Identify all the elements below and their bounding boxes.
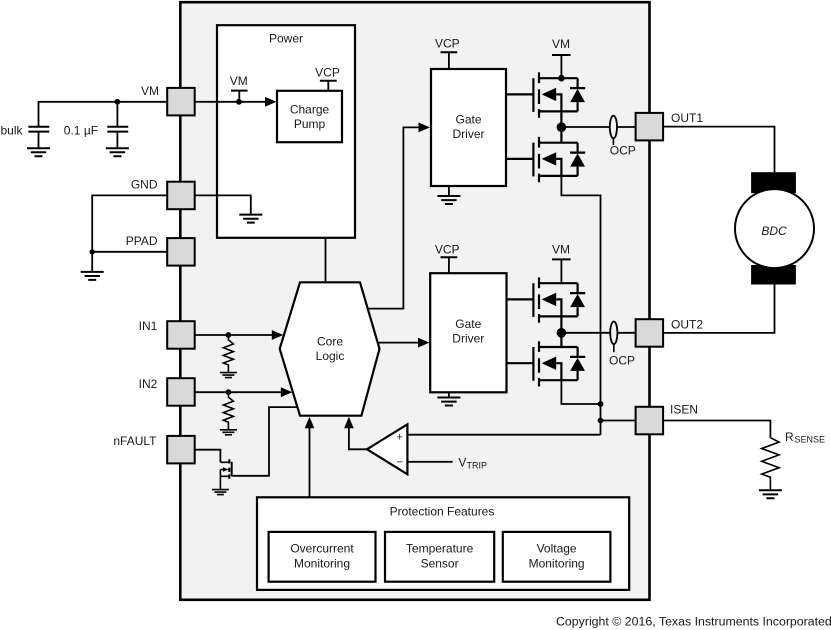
node phase OUT2 <box>557 328 567 338</box>
wire core logic to gate driver 1 <box>368 127 419 308</box>
net VCP (gate driver 1) <box>441 51 458 53</box>
motor BDC <box>735 189 814 268</box>
ground IN2 resistor <box>220 430 237 435</box>
ground power block <box>239 215 262 223</box>
pin VM <box>167 88 195 116</box>
wire VM pin to charge pump <box>195 101 266 103</box>
wire IN2 to core logic <box>195 391 281 393</box>
net VM (half-bridge 1) <box>552 54 571 56</box>
svg-text:PPAD: PPAD <box>126 234 158 248</box>
svg-text:R: R <box>785 430 794 444</box>
box Gate Driver 1 <box>431 69 506 186</box>
svg-text:Protection Features: Protection Features <box>390 504 495 518</box>
wire Q2 source to sense line <box>561 176 600 435</box>
net VCP (charge pump) <box>320 80 337 82</box>
wire comparator output to core logic <box>349 428 367 450</box>
svg-text:BDC: BDC <box>761 224 787 238</box>
node PPAD junction <box>90 249 95 254</box>
svg-text:GND: GND <box>131 177 158 191</box>
ground bulk cap <box>27 148 50 156</box>
pin OUT1 <box>636 113 664 140</box>
svg-text:TRIP: TRIP <box>467 461 488 471</box>
wire PPAD <box>92 251 167 253</box>
wire OUT1 to motor <box>663 127 774 173</box>
node Q4 source junction <box>598 401 604 407</box>
capacitor bulk <box>28 127 49 132</box>
svg-text:VM: VM <box>552 243 570 257</box>
node VM supply junction <box>115 99 121 105</box>
svg-text:Monitoring: Monitoring <box>529 557 585 571</box>
svg-text:ISEN: ISEN <box>670 403 698 417</box>
net VM tap (power) <box>231 90 248 92</box>
svg-text:Power: Power <box>269 32 303 46</box>
node ISEN junction <box>598 418 604 424</box>
svg-text:VM: VM <box>552 37 570 51</box>
net VM (half-bridge 2) <box>552 258 571 260</box>
svg-text:Copyright © 2016, Texas Instru: Copyright © 2016, Texas Instruments Inco… <box>556 615 831 629</box>
wire nFAULT to transistor <box>195 450 221 463</box>
capacitor 0.1 uF <box>116 102 118 127</box>
svg-text:+: + <box>396 431 402 443</box>
svg-text:OUT1: OUT1 <box>671 111 703 125</box>
svg-text:0.1 µF: 0.1 µF <box>64 123 98 137</box>
svg-text:Sensor: Sensor <box>421 557 459 571</box>
ground IN1 resistor <box>220 373 237 378</box>
pin IN1 <box>167 321 195 349</box>
wire Q3 source to phase node <box>560 316 562 347</box>
motor brush bottom <box>751 265 796 285</box>
transistor Q1 high-side HB1 with body diode <box>506 72 585 117</box>
svg-text:Driver: Driver <box>452 331 484 345</box>
wire GND external <box>92 195 167 251</box>
box Gate Driver 2 <box>430 273 506 392</box>
wire ISEN to Rsense <box>663 421 770 438</box>
svg-text:Charge: Charge <box>290 103 330 117</box>
svg-text:V: V <box>458 456 466 470</box>
op-amp current comparator <box>367 424 407 474</box>
IC body DRV8870 <box>180 2 649 600</box>
wire VM supply <box>39 102 168 127</box>
svg-text:VCP: VCP <box>435 243 460 257</box>
sensor OCP 2 <box>610 322 617 345</box>
svg-text:Logic: Logic <box>316 349 345 363</box>
svg-text:VM: VM <box>230 74 248 88</box>
box charge pump CP <box>277 91 342 142</box>
transistor Q4 low-side HB2 with body diode <box>506 341 585 386</box>
resistor IN1 pulldown <box>223 335 233 372</box>
ground nFAULT transistor <box>212 490 229 495</box>
wire core logic to gate driver 2 <box>378 342 418 344</box>
resistor IN2 pulldown <box>223 392 233 429</box>
node phase OUT1 <box>557 122 567 132</box>
box Protection Features <box>257 497 629 590</box>
svg-text:VM: VM <box>141 84 159 98</box>
transistor Q3 high-side HB2 with body diode <box>506 277 585 322</box>
svg-text:Overcurrent: Overcurrent <box>290 542 354 556</box>
pin GND <box>167 182 195 210</box>
wire Q1 source to phase node <box>560 111 562 142</box>
wire Q4 source to sense line <box>561 380 600 404</box>
wire sense to comparator + <box>407 434 600 436</box>
pin PPAD <box>167 238 195 266</box>
svg-text:Gate: Gate <box>455 113 481 127</box>
wire motor to OUT2 <box>663 285 774 333</box>
wire IN1 to core logic <box>195 334 272 336</box>
svg-text:Pump: Pump <box>294 117 326 131</box>
svg-text:VCP: VCP <box>315 65 340 79</box>
svg-text:IN1: IN1 <box>139 319 158 333</box>
wire power to core logic <box>325 239 327 282</box>
box Voltage Monitoring <box>503 532 611 582</box>
wire protection to core logic <box>309 428 311 498</box>
svg-text:IN2: IN2 <box>139 377 158 391</box>
svg-text:Temperature: Temperature <box>406 542 474 556</box>
pin ISEN <box>636 407 664 435</box>
block Core Logic <box>280 282 380 415</box>
wire GND internal <box>195 195 251 214</box>
svg-text:OCP: OCP <box>610 144 636 158</box>
transistor nFAULT open-drain <box>220 462 228 476</box>
pin nFAULT <box>167 436 195 464</box>
wire to ISEN pin <box>601 420 636 422</box>
svg-text:OUT2: OUT2 <box>671 318 703 332</box>
sensor OCP 1 <box>610 116 617 139</box>
box Temperature Sensor <box>385 532 494 582</box>
wire VTRIP input <box>407 461 452 463</box>
ground RSENSE <box>759 490 782 498</box>
svg-text:nFAULT: nFAULT <box>113 434 157 448</box>
node drain HB1 <box>558 75 565 82</box>
svg-text:Voltage: Voltage <box>537 542 577 556</box>
wire phase node to OUT1 <box>561 126 635 128</box>
wire core logic to nFAULT gate <box>232 407 297 476</box>
svg-text:VCP: VCP <box>435 37 460 51</box>
svg-text:bulk: bulk <box>1 123 24 137</box>
ground gate driver 2 <box>448 392 450 397</box>
ground gate driver 1 <box>448 186 450 195</box>
svg-text:Core: Core <box>317 335 343 349</box>
box Power <box>217 25 355 238</box>
resistor RSENSE <box>762 438 779 490</box>
pin IN2 <box>167 378 195 406</box>
svg-text:−: − <box>396 457 402 469</box>
ground PPAD <box>81 272 104 280</box>
transistor Q2 low-side HB1 with body diode <box>506 137 585 182</box>
svg-text:SENSE: SENSE <box>795 435 826 445</box>
box Overcurrent Monitoring <box>269 532 376 582</box>
svg-text:OCP: OCP <box>609 354 635 368</box>
net VCP (gate driver 2) <box>441 256 458 258</box>
svg-text:Gate: Gate <box>455 317 481 331</box>
ground 0.1 uF cap <box>106 148 129 156</box>
pin OUT2 <box>636 319 664 347</box>
motor brush top <box>751 172 796 193</box>
svg-text:Driver: Driver <box>453 127 485 141</box>
wire phase node 2 to OUT2 <box>561 332 635 334</box>
svg-text:Monitoring: Monitoring <box>294 557 350 571</box>
